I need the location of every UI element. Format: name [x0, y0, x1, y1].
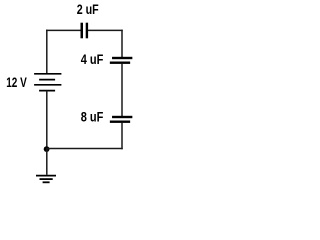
wire bottom horizontal	[46, 148, 123, 150]
capacitor C2 4uF bottom plate	[110, 62, 130, 64]
wire right vertical upper (top corner to C2)	[121, 30, 123, 58]
svg-text:8 uF: 8 uF	[81, 108, 104, 124]
wire right vertical middle (C2 to C3)	[121, 64, 123, 116]
capacitor C1 2uF left plate	[81, 23, 84, 39]
capacitor C2 4uF top plate	[112, 57, 132, 59]
svg-text:2 uF: 2 uF	[77, 1, 99, 17]
wire left vertical upper (top corner to battery +)	[46, 30, 48, 74]
wire top-left segment	[46, 29, 81, 31]
svg-text:12 V: 12 V	[6, 74, 27, 90]
wire ground stem	[46, 149, 48, 175]
ground bar 2	[40, 178, 53, 180]
battery 12V plate short 1	[39, 79, 55, 81]
capacitor C3 8uF bottom plate	[110, 121, 130, 123]
battery 12V plate long 1	[34, 73, 61, 75]
node junction dot	[44, 146, 50, 152]
ground bar 3	[43, 181, 50, 183]
wire left vertical lower (battery - to node)	[46, 91, 48, 149]
svg-text:4 uF: 4 uF	[81, 51, 104, 67]
ground bar 1	[36, 175, 56, 177]
wire right vertical lower (C3 to bottom corner)	[121, 123, 123, 150]
capacitor C3 8uF top plate	[112, 116, 132, 118]
wire top-right segment	[88, 29, 123, 31]
battery 12V plate short 2	[39, 90, 55, 92]
capacitor C1 2uF right plate	[86, 23, 88, 39]
battery 12V plate long 2	[34, 84, 61, 86]
